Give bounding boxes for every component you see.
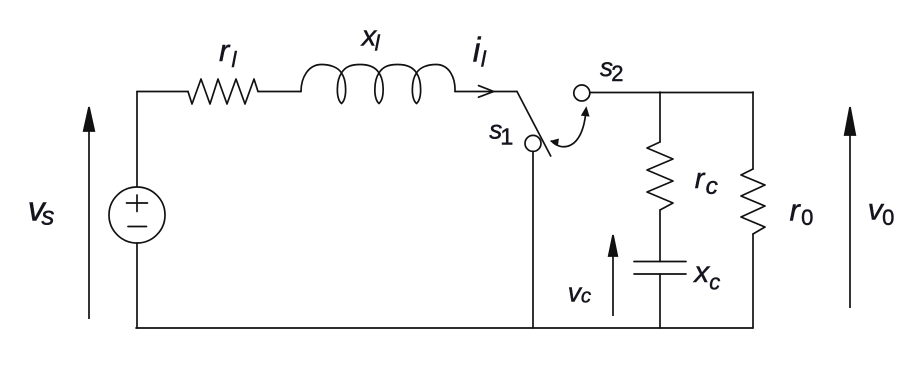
wire cap to bottom (659, 274, 661, 328)
wire below s1 (532, 152, 534, 328)
node s2 circle (574, 85, 590, 101)
svg-text:r: r (695, 163, 706, 195)
capacitor X c (634, 261, 686, 263)
svg-text:c: c (581, 285, 592, 308)
wire inductor to switch (455, 91, 517, 93)
resistor R l (188, 79, 258, 104)
wire rc branch top (659, 92, 661, 142)
svg-text:l: l (481, 47, 487, 72)
vs arrow (88, 128, 90, 319)
wire r0 to bottom (752, 234, 754, 328)
source V circle (109, 187, 165, 243)
wire r0 branch top (752, 92, 754, 169)
svg-text:s: s (41, 201, 54, 231)
vc arrow (612, 252, 614, 316)
svg-text:c: c (709, 269, 720, 294)
resistor r 0 (741, 169, 765, 234)
svg-text:0: 0 (801, 205, 813, 230)
node s1 circle (525, 135, 541, 151)
source plus sign (127, 202, 148, 204)
svg-text:r: r (790, 192, 802, 227)
bottom wire (136, 327, 753, 329)
svg-text:1: 1 (500, 123, 513, 149)
left branch wire upper (136, 92, 138, 188)
wire rc to cap (659, 210, 661, 262)
svg-text:0: 0 (882, 205, 894, 230)
svg-text:r: r (219, 33, 231, 68)
wire s2 to right (590, 92, 753, 94)
current arrow i l (479, 86, 494, 98)
resistor r c (647, 142, 673, 210)
svg-text:l: l (232, 47, 238, 72)
wire top-left horizontal (137, 91, 188, 93)
svg-text:c: c (706, 173, 718, 200)
svg-text:l: l (375, 30, 381, 55)
v0 arrow (849, 132, 851, 308)
switch blade (517, 92, 551, 157)
switch arc arrow (552, 110, 587, 147)
wire resistor to inductor (258, 91, 301, 93)
source minus sign (128, 226, 147, 228)
svg-text:2: 2 (611, 61, 623, 86)
inductor X l (301, 65, 455, 104)
svg-text:x: x (692, 256, 710, 289)
left branch wire lower (136, 243, 138, 328)
